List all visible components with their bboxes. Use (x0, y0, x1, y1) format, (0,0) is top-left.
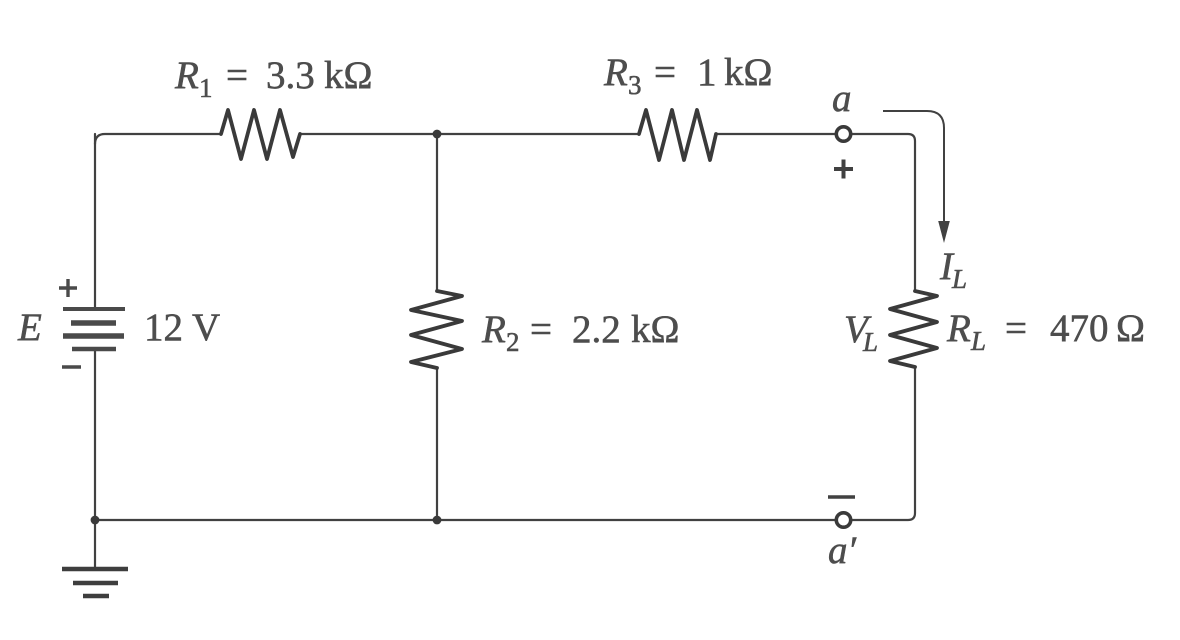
svg-text:E: E (17, 306, 42, 349)
svg-text:R: R (174, 54, 199, 97)
label R3 = 1 kOhm (603, 51, 772, 100)
resistor R2 (411, 291, 462, 368)
battery plus sign (59, 279, 77, 297)
junction dot at battery bottom node (91, 516, 100, 525)
wire top-left segment (95, 134, 221, 144)
svg-text:=: = (226, 54, 248, 97)
svg-text:=: = (1005, 307, 1027, 350)
svg-text:1: 1 (697, 51, 717, 94)
plus sign at node a (834, 160, 853, 179)
svg-text:1: 1 (199, 73, 213, 103)
resistor R1 (221, 110, 300, 159)
svg-text:L: L (862, 327, 878, 357)
label R2 = 2.2 kOhm (481, 308, 679, 357)
wire left vertical lower (94, 351, 96, 567)
svg-text:kΩ: kΩ (631, 308, 679, 351)
svg-text:=: = (654, 51, 676, 94)
battery E plates (63, 309, 125, 349)
battery minus sign (62, 365, 81, 368)
svg-text:a′: a′ (828, 529, 857, 572)
wire right vertical lower (851, 367, 915, 520)
wire top right segment (716, 133, 836, 135)
node a-prime terminal circle (836, 513, 850, 527)
svg-text:12 V: 12 V (144, 306, 220, 349)
junction dot at R2 bottom node (433, 516, 442, 525)
svg-text:L: L (951, 264, 967, 294)
minus sign at node a-prime (828, 495, 855, 499)
current arrow IL (883, 111, 944, 224)
resistor R3 (639, 110, 716, 160)
node a terminal circle (836, 127, 850, 141)
wire left vertical upper (94, 134, 96, 307)
svg-text:2: 2 (506, 327, 520, 357)
svg-text:a: a (832, 77, 852, 120)
svg-text:3: 3 (628, 70, 642, 100)
wire R2 top lead (436, 134, 438, 291)
svg-text:R: R (603, 51, 628, 94)
wire bottom segment (95, 519, 836, 521)
svg-text:R: R (481, 308, 506, 351)
wire R2 bottom lead (436, 368, 438, 520)
wire from node a to right corner (851, 134, 915, 291)
label R1 = 3.3 kOhm (174, 54, 372, 103)
svg-text:470: 470 (1050, 307, 1109, 350)
ground (62, 569, 128, 596)
svg-text:L: L (970, 326, 986, 356)
svg-text:Ω: Ω (1116, 307, 1145, 350)
svg-text:kΩ: kΩ (724, 51, 772, 94)
resistor RL (890, 291, 937, 367)
svg-text:kΩ: kΩ (324, 54, 372, 97)
wire top middle segment (300, 133, 639, 135)
label RL = 470 Ohm (946, 307, 1145, 356)
label VL (844, 308, 878, 357)
svg-text:3.3: 3.3 (266, 54, 315, 97)
junction dot at R1/R2/R3 node (433, 130, 442, 139)
svg-text:2.2: 2.2 (572, 308, 621, 351)
svg-text:=: = (530, 308, 552, 351)
label IL (939, 245, 967, 294)
svg-text:R: R (946, 307, 971, 350)
